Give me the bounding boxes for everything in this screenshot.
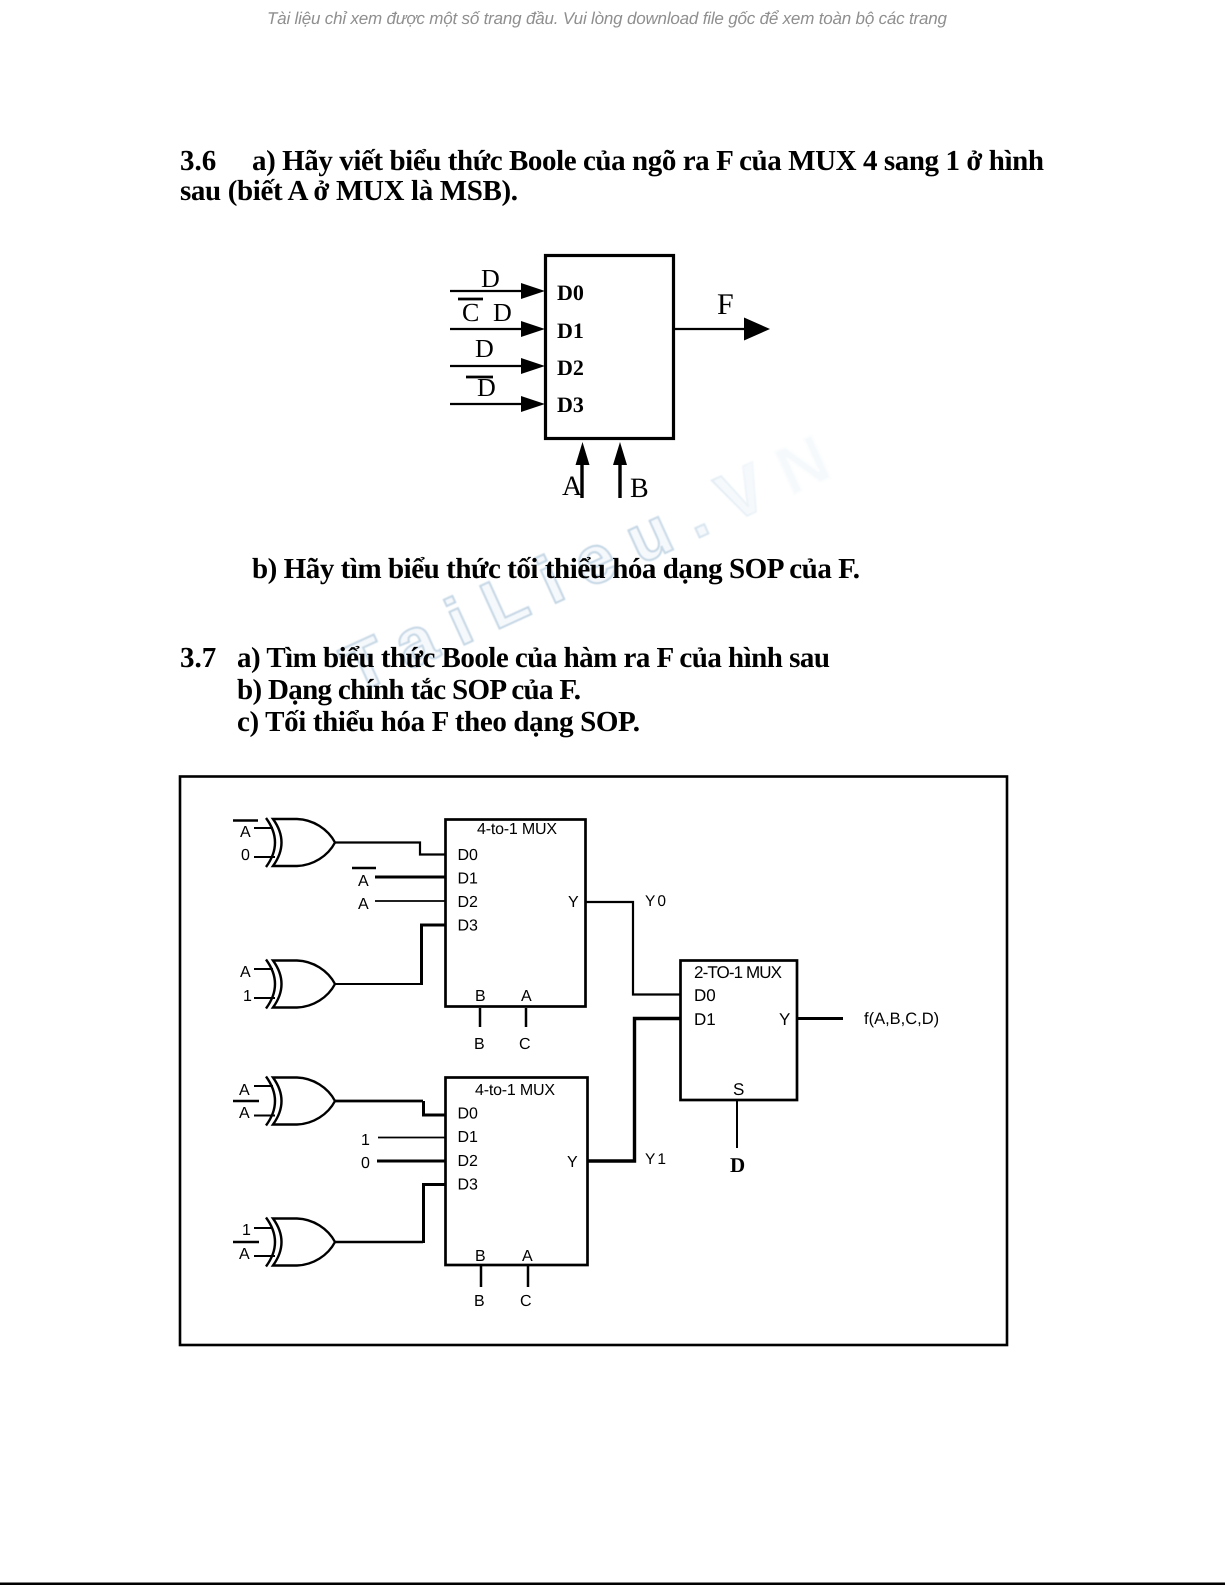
svg-text:F: F	[717, 288, 734, 321]
svg-text:Tài liệu chỉ xem được một số t: Tài liệu chỉ xem được một số trang đầu. …	[267, 9, 948, 28]
xor gate G1	[266, 818, 335, 867]
label A-bar (G4 input 2)	[239, 1246, 250, 1263]
svg-text:D: D	[481, 264, 500, 293]
mux U4 body (2-to-1)	[681, 961, 798, 1101]
svg-text:D0: D0	[458, 1106, 479, 1123]
wire G4 input 2	[254, 1255, 275, 1257]
pin label S (U4)	[733, 1080, 744, 1099]
label B (U2 select)	[474, 1036, 485, 1053]
arrowhead select A	[576, 442, 590, 465]
svg-text:D3: D3	[458, 1177, 479, 1194]
wire Y0 net	[586, 902, 680, 995]
label A (U2 D2 input)	[358, 896, 369, 913]
wire U3 select B stub	[480, 1266, 483, 1287]
label Y1	[645, 1151, 668, 1168]
svg-text:D1: D1	[557, 318, 584, 343]
label 0 (G1 input 2)	[241, 847, 250, 864]
pin label D0 (U2)	[458, 847, 479, 864]
svg-text:D2: D2	[458, 1153, 479, 1170]
wire D1 input	[450, 328, 523, 330]
svg-text:Y1: Y1	[645, 1151, 668, 1168]
heading 3.7	[180, 642, 830, 738]
svg-text:B: B	[474, 1293, 485, 1310]
pin label Y (U2)	[568, 894, 579, 911]
label 1 (U3 D1 input)	[361, 1132, 370, 1149]
svg-text:D: D	[730, 1153, 745, 1177]
arrowhead F	[744, 318, 770, 341]
label 1 (G4 input 1)	[242, 1222, 251, 1239]
wire U2 D1 input	[375, 876, 446, 879]
svg-text:D: D	[475, 334, 494, 363]
svg-text:C: C	[520, 1293, 532, 1310]
label 0 (U3 D2 input)	[361, 1155, 370, 1172]
pin label D1 (U3)	[458, 1129, 479, 1146]
wire G2 to D3	[422, 925, 447, 985]
svg-text:A: A	[522, 1248, 533, 1265]
pin label D0 (U4)	[694, 986, 716, 1005]
wire U2 select B stub	[479, 1008, 482, 1027]
label 1 (G2 input 2)	[243, 988, 252, 1005]
header notice	[267, 9, 948, 28]
svg-text:1: 1	[361, 1132, 370, 1149]
svg-text:Y0: Y0	[645, 893, 668, 910]
label B (U3 select)	[474, 1293, 485, 1310]
label D-bar (input D3)	[477, 373, 496, 402]
label A (G1 input 1)	[240, 824, 251, 841]
pin label Y (U4)	[779, 1010, 790, 1029]
arrowhead D0	[521, 283, 545, 299]
wire G4 output	[335, 1241, 423, 1244]
svg-text:A: A	[239, 1105, 250, 1122]
label A-bar (G3 input 2)	[239, 1105, 250, 1122]
heading 3.6 b	[252, 553, 860, 585]
label f(A,B,C,D)	[864, 1010, 939, 1028]
svg-text:0: 0	[361, 1155, 370, 1172]
svg-text:D1: D1	[694, 1010, 716, 1029]
overline of A (U2 D1 input)	[352, 867, 376, 870]
svg-text:D1: D1	[458, 1129, 479, 1146]
pin label D1	[557, 318, 584, 343]
pin label A (U3)	[522, 1248, 533, 1265]
pin label D3	[557, 392, 584, 417]
mux U2 body (4-to-1 top)	[446, 820, 586, 1007]
wire D2 input	[450, 365, 523, 367]
wire f output	[797, 1017, 843, 1020]
svg-text:A: A	[240, 824, 251, 841]
svg-text:Y: Y	[779, 1010, 790, 1029]
label A (G3 input 1)	[239, 1082, 250, 1099]
svg-text:Y: Y	[567, 1154, 578, 1171]
wire G3 output	[335, 1100, 423, 1103]
svg-text:A: A	[521, 988, 532, 1005]
pin label B (U2)	[475, 988, 486, 1005]
svg-text:D0: D0	[557, 280, 584, 305]
label 2-TO-1 MUX (U4)	[694, 963, 782, 982]
svg-text:f(A,B,C,D): f(A,B,C,D)	[864, 1010, 939, 1028]
pin label D2	[557, 355, 584, 380]
mux U3 body (4-to-1 bottom)	[446, 1078, 588, 1266]
svg-text:b) Hãy tìm biểu thức tối thiểu: b) Hãy tìm biểu thức tối thiểu hóa dạng …	[252, 553, 860, 585]
wire D0 input	[450, 290, 523, 292]
arrowhead select B	[613, 442, 627, 465]
wire Y1 net	[588, 1019, 680, 1162]
label A-bar (U2 D1 input)	[358, 873, 369, 890]
wire G1 output to D0	[335, 843, 446, 855]
wire F output	[673, 328, 746, 330]
pin label Y (U3)	[567, 1154, 578, 1171]
wire G4 to D3 (U3)	[424, 1185, 447, 1244]
svg-text:4-to-1 MUX: 4-to-1 MUX	[477, 821, 557, 838]
wire U2 select C stub	[525, 1008, 528, 1027]
svg-text:sau (biết A ở MUX là MSB).: sau (biết A ở MUX là MSB).	[180, 175, 518, 207]
pin label D3 (U3)	[458, 1177, 479, 1194]
wire U3 D1 input	[378, 1137, 446, 1139]
label C (U2 select)	[519, 1036, 531, 1053]
svg-text:3.6: 3.6	[180, 145, 216, 177]
svg-text:b) Dạng chính tắc SOP của F.: b) Dạng chính tắc SOP của F.	[237, 674, 581, 706]
label Y0	[645, 893, 668, 910]
svg-text:D0: D0	[694, 986, 716, 1005]
label B	[630, 473, 649, 504]
label A	[562, 471, 583, 502]
svg-text:1: 1	[243, 988, 252, 1005]
wire S input	[736, 1100, 738, 1148]
label 4-to-1 MUX (U3)	[475, 1082, 555, 1099]
svg-text:A: A	[562, 471, 583, 502]
wire G2 input 1	[254, 968, 273, 970]
svg-text:0: 0	[241, 847, 250, 864]
svg-text:B: B	[474, 1036, 485, 1053]
pin label D2 (U3)	[458, 1153, 479, 1170]
svg-text:a) Hãy viết biểu thức Boole củ: a) Hãy viết biểu thức Boole của ngõ ra F…	[252, 145, 1044, 177]
pin label D0	[557, 280, 584, 305]
wire G3 input 1	[254, 1085, 273, 1087]
svg-text:B: B	[475, 1248, 486, 1265]
wire G3 to D0 (U3)	[424, 1101, 447, 1115]
svg-text:D: D	[493, 298, 512, 327]
svg-text:4-to-1 MUX: 4-to-1 MUX	[475, 1082, 555, 1099]
label F	[717, 288, 734, 321]
figure 3.7 frame	[180, 777, 1007, 1346]
wire U3 select C stub	[527, 1266, 530, 1287]
wire G2 input 2	[254, 997, 275, 999]
svg-text:B: B	[475, 988, 486, 1005]
wire U3 D2 input	[377, 1160, 446, 1163]
overline of A (G1 input 1)	[233, 819, 258, 822]
label D (select input)	[730, 1153, 745, 1177]
pin label D1 (U4)	[694, 1010, 716, 1029]
wire G2 output	[335, 983, 421, 985]
arrowhead D1	[521, 321, 545, 337]
bottom rule	[0, 1583, 1225, 1585]
svg-text:B: B	[630, 473, 649, 504]
label D (input D2)	[475, 334, 494, 363]
overline of C	[458, 298, 483, 301]
svg-text:D3: D3	[458, 918, 479, 935]
svg-text:2-TO-1 MUX: 2-TO-1 MUX	[694, 963, 782, 982]
pin label D0 (U3)	[458, 1106, 479, 1123]
svg-text:A: A	[358, 873, 369, 890]
pin label D3 (U2)	[458, 918, 479, 935]
label D (input D0)	[481, 264, 500, 293]
wire select A	[580, 462, 583, 498]
svg-text:A: A	[240, 964, 251, 981]
label C D (input D1)	[462, 298, 512, 327]
svg-text:D0: D0	[458, 847, 479, 864]
pin label D1 (U2)	[458, 871, 479, 888]
pin label A (U2)	[521, 988, 532, 1005]
svg-text:3.7: 3.7	[180, 642, 216, 674]
svg-text:1: 1	[242, 1222, 251, 1239]
xor gate G3	[266, 1077, 335, 1126]
svg-text:A: A	[239, 1246, 250, 1263]
wire G4 input 1	[254, 1227, 273, 1229]
label C (U3 select)	[520, 1293, 532, 1310]
svg-text:A: A	[358, 896, 369, 913]
heading 3.6	[180, 145, 1044, 207]
svg-text:D3: D3	[557, 392, 584, 417]
pin label D2 (U2)	[458, 894, 479, 911]
wire G1 input 2	[254, 856, 275, 858]
overline of D (input D3)	[466, 376, 493, 379]
svg-text:D1: D1	[458, 871, 479, 888]
svg-text:c) Tối thiểu hóa F theo dạng S: c) Tối thiểu hóa F theo dạng SOP.	[237, 706, 640, 738]
arrowhead D2	[521, 358, 545, 374]
svg-text:a) Tìm biểu thức Boole của hàm: a) Tìm biểu thức Boole của hàm ra F của …	[237, 642, 830, 674]
label A (G2 input 1)	[240, 964, 251, 981]
svg-text:C: C	[462, 298, 479, 327]
xor gate G2	[266, 960, 335, 1009]
svg-text:A: A	[239, 1082, 250, 1099]
svg-text:Y: Y	[568, 894, 579, 911]
svg-text:D2: D2	[557, 355, 584, 380]
arrowhead D3	[521, 396, 545, 412]
svg-text:D: D	[477, 373, 496, 402]
wire U2 D2 input	[375, 900, 446, 902]
overline of A (G3 input 2)	[233, 1100, 259, 1103]
wire G3 input 2	[254, 1115, 275, 1117]
overline of A (G4 input 2)	[233, 1241, 259, 1244]
wire D3 input	[450, 403, 523, 405]
pin label B (U3)	[475, 1248, 486, 1265]
xor gate G4	[266, 1218, 335, 1267]
mux U1 body	[546, 256, 674, 439]
wire G1 input 1	[254, 827, 273, 829]
svg-text:D2: D2	[458, 894, 479, 911]
label 4-to-1 MUX (U2)	[477, 821, 557, 838]
wire select B	[618, 462, 621, 498]
svg-text:C: C	[519, 1036, 531, 1053]
svg-text:S: S	[733, 1080, 744, 1099]
